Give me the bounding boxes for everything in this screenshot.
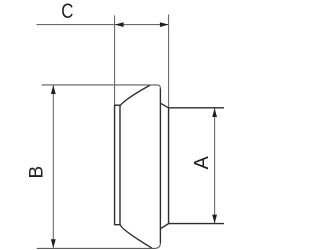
cap lip right edge <box>119 105 121 225</box>
bottom weld chamfer <box>160 224 224 229</box>
dimension B bottom extension line merged with dome flat bottom and corner <box>37 243 161 248</box>
cap top dome arc and tube top line <box>120 85 150 105</box>
cap bottom dome arc and tube bottom line <box>120 225 152 249</box>
cone-tube edge line <box>168 108 170 224</box>
dimension B line <box>52 85 54 248</box>
svg-text:C: C <box>61 1 73 24</box>
dimension C right arrowhead <box>160 22 169 27</box>
dimension C right extension line <box>168 15 170 108</box>
dimension A bottom arrowhead <box>212 215 217 224</box>
dimension A top arrowhead <box>212 108 217 117</box>
dimension C line <box>37 24 169 26</box>
svg-text:A: A <box>191 155 213 169</box>
cap lip top edge <box>114 104 121 106</box>
cap face left edge line <box>114 105 116 225</box>
cap lip bottom edge <box>114 224 121 226</box>
svg-text:B: B <box>27 166 48 179</box>
dimension C left arrowhead <box>115 22 124 27</box>
dimension A line <box>214 108 216 223</box>
cap right face line <box>159 88 161 243</box>
dimension B top arrowhead <box>51 85 56 94</box>
top weld chamfer <box>160 103 224 108</box>
dimension B top extension line merged with dome flat top and corner <box>42 85 161 88</box>
dimension B bottom arrowhead <box>51 239 56 248</box>
dimension C left extension line <box>114 15 116 105</box>
